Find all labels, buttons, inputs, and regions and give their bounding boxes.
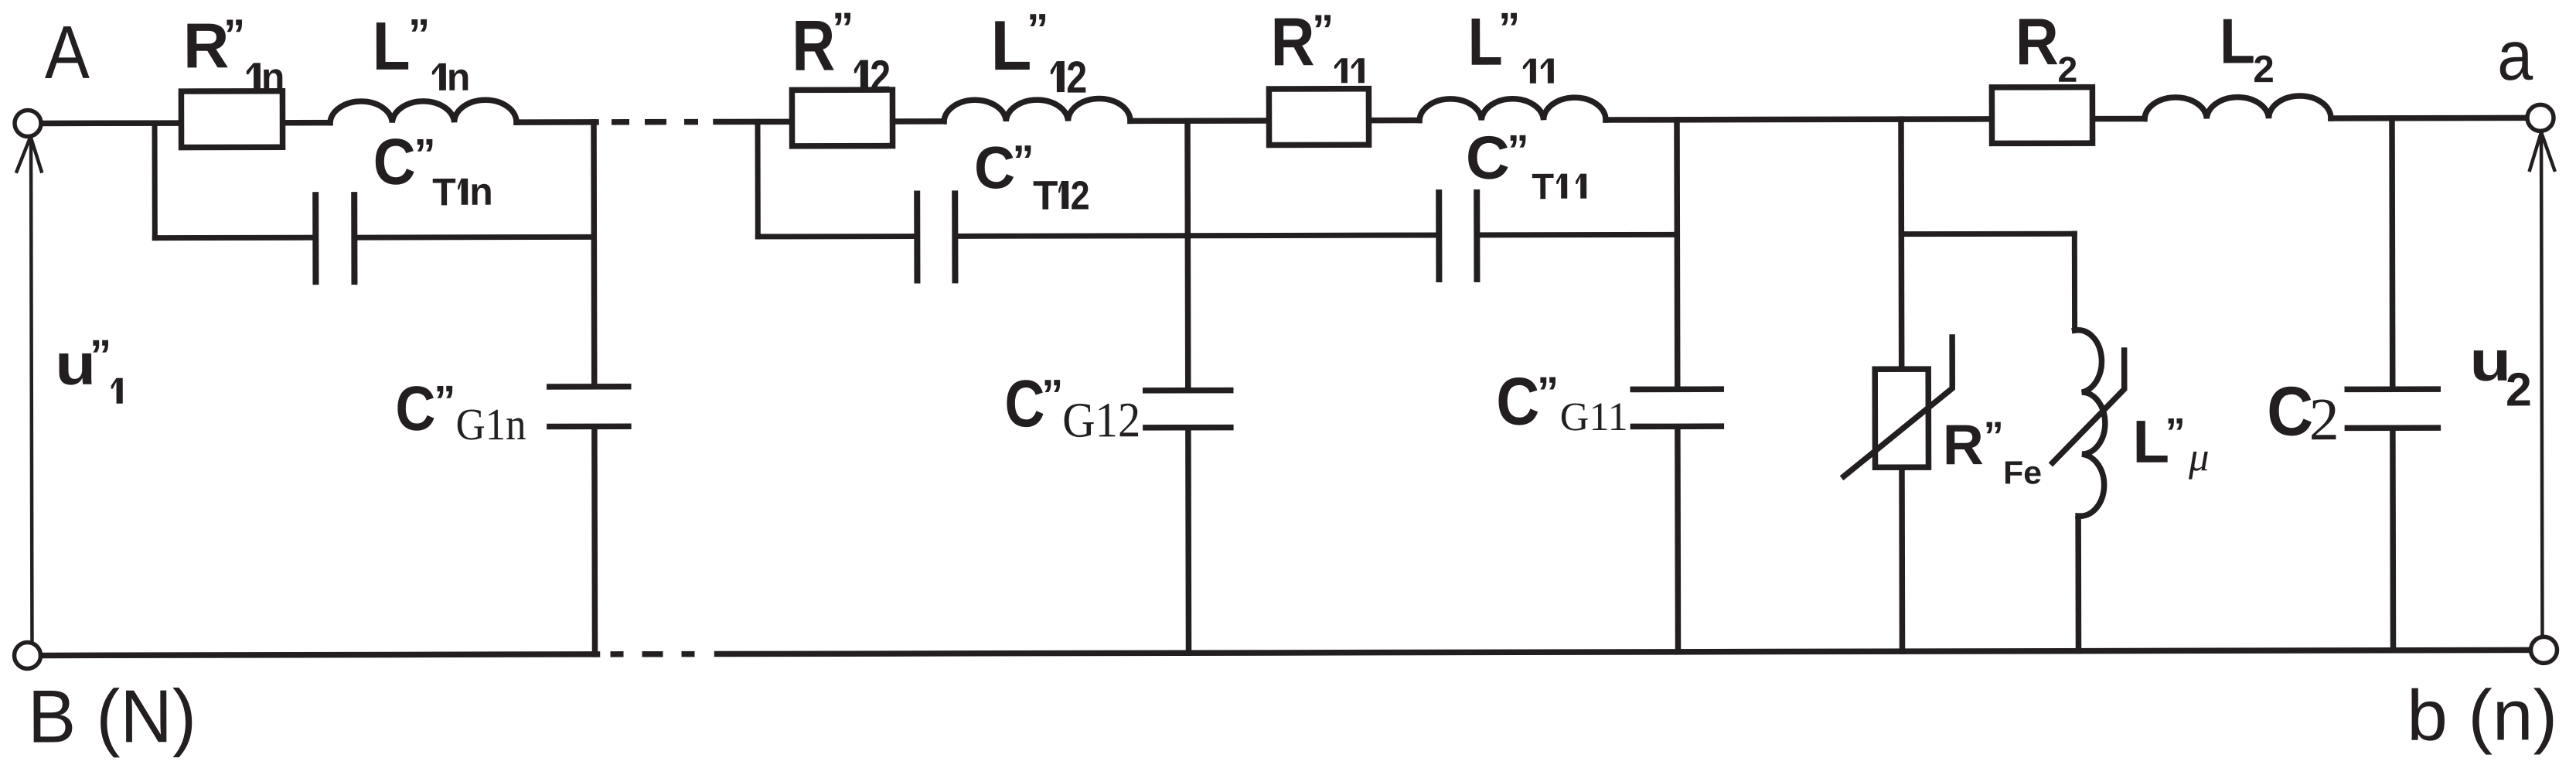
wire top dashed break (612, 119, 698, 125)
wire R12 to L12 (895, 118, 944, 125)
svg-text:”: ” (1508, 125, 1529, 174)
svg-text:L: L (2132, 408, 2169, 476)
wire A to R1n (43, 120, 179, 126)
svg-text:”: ” (1498, 3, 1520, 52)
label C"G11 (1496, 364, 1628, 439)
label C"T1n (373, 125, 493, 214)
svg-text:b (n): b (n) (2407, 674, 2557, 755)
svg-text:R: R (1270, 3, 1314, 80)
label C"T12 (974, 135, 1090, 219)
resistor R2 (1992, 87, 2092, 144)
wire tee node12 down (755, 121, 760, 236)
svg-text:2: 2 (2253, 48, 2274, 90)
wire bottom rail right (717, 650, 2530, 654)
label R"12 (792, 3, 891, 101)
svg-text:R: R (792, 5, 835, 86)
svg-text:”: ” (832, 3, 854, 52)
label R2 (2015, 5, 2078, 90)
wire branch CT12-CT11 middle (958, 235, 1436, 236)
nonlinearity arrow of RFe (1844, 337, 1953, 476)
svg-text:a: a (2497, 17, 2533, 95)
label R"1n (183, 10, 285, 99)
wire shunt C2 lower (2390, 431, 2396, 650)
wire branch to Lmu (1901, 231, 2074, 237)
svg-text:G12: G12 (1062, 392, 1140, 447)
svg-text:”: ” (1013, 136, 1034, 185)
label L"12 (990, 5, 1087, 103)
svg-text:R: R (2015, 5, 2059, 79)
svg-text:”: ” (1537, 367, 1559, 416)
wire dash-end to node 12 (716, 119, 789, 125)
node label b (n) (2407, 674, 2557, 755)
svg-text:Fe: Fe (2003, 454, 2042, 490)
svg-text:C: C (1466, 124, 1510, 192)
svg-text:2: 2 (1066, 53, 1087, 103)
svg-text:T: T (432, 170, 456, 213)
wire branch CT1n right (357, 234, 594, 241)
terminal a (2527, 104, 2554, 131)
terminal B (N) (14, 642, 40, 668)
svg-text:A: A (45, 10, 90, 94)
svg-text:”: ” (1027, 5, 1048, 53)
svg-text:L: L (372, 8, 410, 84)
svg-text:n: n (447, 56, 471, 99)
node label a (2497, 17, 2533, 95)
svg-text:”: ” (90, 330, 111, 379)
svg-text:R: R (183, 10, 230, 81)
svg-text:T: T (1033, 173, 1058, 219)
svg-text:C: C (2267, 373, 2313, 450)
svg-text:L: L (2220, 5, 2255, 77)
wire shunt v2 upper (1184, 121, 1191, 387)
wire shunt v1 upper (591, 122, 597, 384)
resistor R"Fe (1875, 369, 1928, 467)
resistor R"12 (792, 90, 892, 146)
svg-text:2: 2 (2309, 385, 2339, 452)
wire R2 to L2 (2095, 116, 2145, 122)
svg-text:”: ” (1041, 370, 1063, 419)
wire shunt v3 upper (1674, 120, 1680, 387)
label L2 (2220, 5, 2274, 90)
wire bottom dashed break (611, 651, 695, 657)
node label A (45, 10, 90, 94)
wire shunt v3 lower (1675, 429, 1681, 652)
svg-text:L: L (1468, 5, 1503, 80)
wire Lmu to rail (2075, 516, 2081, 650)
svg-text:μ: μ (2188, 435, 2210, 480)
svg-text:n: n (261, 55, 285, 98)
label C"T11 (1466, 124, 1586, 207)
capacitor C"G11 (1633, 389, 1721, 426)
wire shunt v1 lower (591, 429, 598, 654)
label u2 (2469, 329, 2532, 416)
svg-text:2: 2 (2506, 363, 2532, 415)
svg-text:C: C (974, 135, 1015, 201)
svg-text:C: C (373, 125, 416, 198)
svg-text:L: L (990, 6, 1031, 85)
svg-text:”: ” (1312, 5, 1334, 54)
label C2 (2267, 373, 2339, 452)
svg-text:C: C (1004, 367, 1044, 441)
capacitor C"T1n (315, 195, 354, 282)
nonlinearity arrow of Lmu (2053, 350, 2125, 463)
inductor L"mu (2075, 330, 2106, 517)
label C"G12 (1004, 367, 1140, 448)
wire tee node1 down (152, 123, 157, 237)
label C"G1n (395, 374, 526, 450)
wire shunt v2 lower (1185, 430, 1191, 653)
label R"11 (1270, 3, 1364, 83)
terminal b (n) (2530, 637, 2557, 663)
voltage arrow u"1 (17, 136, 43, 640)
svg-text:T: T (1532, 166, 1554, 207)
label R"Fe (1943, 412, 2042, 491)
resistor R"1n (181, 91, 282, 148)
voltage arrow u2 (2530, 132, 2555, 635)
capacitor C"T12 (917, 193, 955, 280)
svg-text:2: 2 (1071, 173, 1090, 218)
inductor L"11 (1419, 97, 1606, 121)
svg-text:”: ” (223, 10, 245, 59)
wire branch CT11 right (1480, 232, 1677, 238)
capacitor C"T11 (1439, 193, 1477, 279)
label u"1 (55, 330, 123, 404)
wire L12 to node v2 (1130, 118, 1266, 124)
wire RFe to rail (1899, 470, 1905, 651)
capacitor C2 (2347, 389, 2438, 428)
label L"11 (1468, 3, 1554, 84)
capacitor C"G12 (1146, 391, 1231, 428)
svg-text:B (N): B (N) (28, 674, 196, 758)
svg-text:n: n (469, 170, 493, 213)
inductor L"1n (330, 100, 516, 123)
label L"mu (2132, 408, 2209, 480)
svg-text:R: R (1943, 412, 1984, 476)
svg-text:G1n: G1n (455, 399, 526, 449)
wire L2 to terminal a (2331, 115, 2526, 121)
wire branch CT12 left (758, 234, 914, 239)
terminal A (15, 110, 41, 136)
wire L1n to node v1 (516, 119, 596, 125)
svg-text:C: C (395, 374, 435, 444)
svg-text:”: ” (1984, 414, 2004, 459)
resistor R"11 (1269, 89, 1368, 145)
wire R1n to L1n (285, 120, 330, 126)
inductor L2 (2145, 96, 2331, 119)
svg-text:2: 2 (2057, 50, 2077, 90)
svg-text:2: 2 (870, 51, 891, 101)
node label B (N) (28, 674, 196, 758)
wire shunt C2 upper (2389, 118, 2395, 387)
wire Lmu down (2072, 234, 2077, 330)
svg-text:”: ” (2165, 411, 2186, 456)
svg-text:G11: G11 (1560, 394, 1628, 439)
label L"1n (372, 8, 470, 99)
wire L11 to node v3 and node m (1606, 119, 1989, 120)
capacitor C"G1n (550, 387, 629, 427)
inductor L"12 (944, 98, 1130, 121)
wire RFe node down (1898, 119, 1904, 366)
wire R11 to L11 (1371, 118, 1419, 124)
svg-text:”: ” (408, 9, 430, 58)
wire branch CT1n left (155, 235, 312, 241)
wire bottom rail left (42, 654, 598, 656)
svg-text:”: ” (434, 376, 455, 425)
svg-text:C: C (1496, 364, 1539, 439)
